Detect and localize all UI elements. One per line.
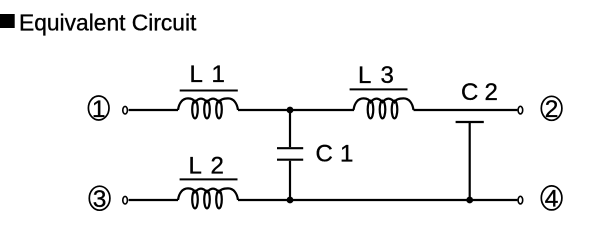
inductor L3 (354, 98, 414, 118)
svg-text:L: L (190, 61, 203, 88)
inductor L1 (178, 98, 238, 118)
svg-text:L: L (358, 62, 371, 89)
node C junction dot (466, 197, 473, 204)
svg-text:2: 2 (211, 152, 224, 179)
open terminal pin 4 (518, 196, 523, 204)
wire L2 to pin4 (238, 199, 517, 201)
svg-text:1: 1 (92, 96, 106, 123)
wire L1 to L3 (238, 109, 354, 111)
wire pin1 to L1 (129, 109, 178, 111)
terminal 2 circled number (541, 96, 562, 123)
svg-text:4: 4 (545, 186, 559, 213)
terminal 1 circled number (88, 96, 109, 123)
svg-text:C: C (316, 141, 333, 168)
wire L3 to pin2 (414, 109, 518, 111)
terminal 3 circled number (89, 186, 110, 213)
open terminal pin 3 (123, 196, 128, 204)
svg-text:Equivalent Circuit: Equivalent Circuit (19, 10, 197, 36)
svg-text:3: 3 (93, 186, 107, 213)
capacitor C1 bottom lead wire (289, 161, 291, 200)
inductor L2 (178, 188, 238, 208)
terminal 4 circled number (541, 186, 562, 213)
overline L1 (180, 90, 238, 92)
capacitor C2 lead wire (469, 123, 471, 200)
capacitor C1 plates (277, 148, 303, 160)
node B junction dot (287, 197, 294, 204)
open terminal pin 2 (518, 106, 523, 114)
node A junction dot (287, 107, 294, 114)
capacitor C2 plate (456, 121, 484, 123)
svg-text:2: 2 (545, 96, 559, 123)
overline L3 (350, 88, 408, 90)
wire pin3 to L2 (129, 199, 178, 201)
svg-text:1: 1 (340, 141, 353, 168)
svg-text:3: 3 (381, 62, 394, 89)
svg-text:L: L (189, 152, 202, 179)
svg-text:1: 1 (212, 61, 225, 88)
svg-text:C: C (461, 79, 478, 106)
open terminal pin 1 (123, 106, 128, 114)
overline L2 (180, 178, 238, 180)
capacitor C1 top lead wire (289, 110, 291, 147)
svg-text:2: 2 (485, 79, 498, 106)
title bullet square (0, 14, 15, 28)
